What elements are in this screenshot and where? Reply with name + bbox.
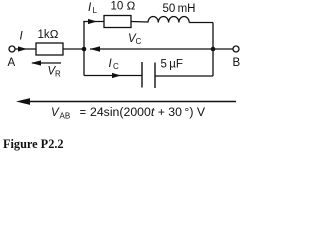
node 2 junction — [211, 47, 216, 52]
resistor R2 10 Ohm — [104, 16, 131, 28]
node 1 junction — [82, 47, 87, 52]
capacitor C1 right plate — [154, 63, 156, 89]
wire R2 to inductor — [131, 21, 148, 24]
svg-text:B: B — [233, 57, 241, 69]
svg-text:R: R — [55, 70, 61, 79]
svg-text:10 Ω: 10 Ω — [111, 1, 136, 13]
svg-text:50 mH: 50 mH — [163, 3, 196, 15]
wire R1 to node 1 — [63, 48, 84, 50]
svg-text:A: A — [8, 57, 16, 69]
svg-text:L: L — [93, 6, 98, 15]
wire node 2 to terminal B — [215, 48, 233, 50]
wire bottom branch left — [84, 75, 142, 77]
voltage arrow line V_C — [90, 48, 213, 50]
current arrow I — [18, 46, 27, 51]
resistor R1 1 kOhm — [36, 43, 63, 55]
wire inductor to right corner — [189, 22, 213, 24]
voltage arrow V_AB — [20, 101, 236, 103]
svg-text:AB: AB — [60, 112, 71, 121]
svg-text:24sin(2000t + 30 °) V: 24sin(2000t + 30 °) V — [90, 105, 206, 119]
current arrow I_L — [88, 19, 97, 24]
svg-text:1kΩ: 1kΩ — [38, 29, 59, 41]
inductor L1 50 mH — [148, 16, 189, 22]
wire top branch left — [83, 21, 104, 23]
wire right vertical — [212, 23, 214, 77]
svg-text:C: C — [136, 37, 142, 46]
svg-text:5 µF: 5 µF — [161, 59, 183, 71]
terminal B — [233, 46, 239, 52]
wire left vertical (node 1 riser/dropper) — [83, 21, 85, 76]
wire capacitor to right vertical — [155, 75, 213, 77]
voltage arrow V_R — [32, 62, 61, 64]
svg-text:Figure P2.2: Figure P2.2 — [3, 137, 64, 151]
terminal A — [9, 46, 15, 52]
wire A to resistor R1 — [16, 48, 37, 50]
svg-text:=: = — [80, 107, 87, 119]
svg-text:C: C — [113, 62, 119, 71]
current arrow I_C — [112, 73, 121, 78]
capacitor C1 left plate — [141, 62, 143, 88]
